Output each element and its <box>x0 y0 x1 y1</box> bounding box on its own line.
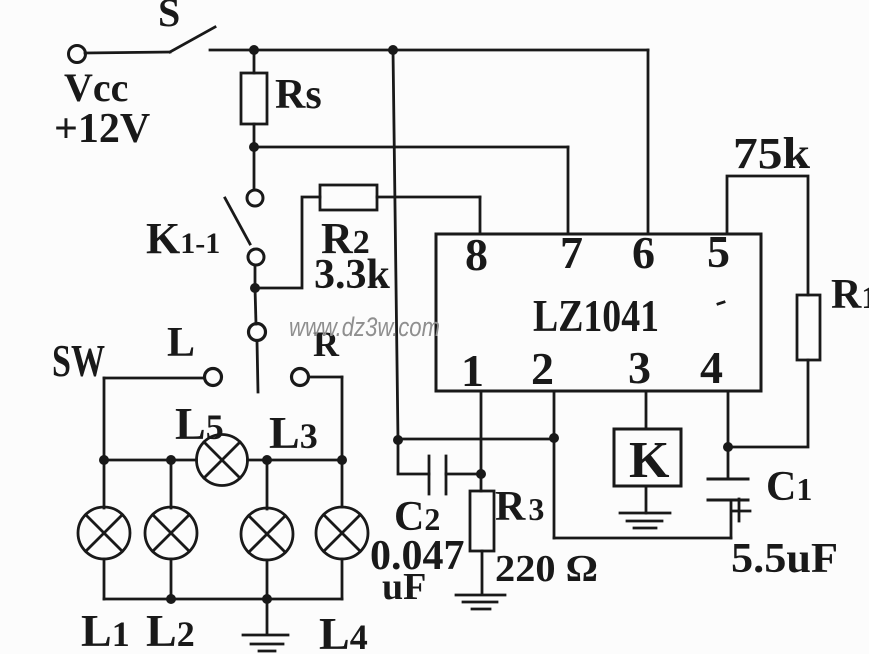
svg-text:uF: uF <box>382 566 426 608</box>
svg-text:+12V: +12V <box>54 106 150 152</box>
svg-text:3: 3 <box>628 342 651 393</box>
svg-text:K: K <box>629 432 670 489</box>
svg-text:6: 6 <box>632 227 655 278</box>
svg-text:L: L <box>167 320 195 366</box>
svg-text:SW: SW <box>52 335 105 386</box>
svg-text:5: 5 <box>707 226 730 277</box>
svg-text:75k: 75k <box>733 129 811 178</box>
svg-text:2: 2 <box>531 343 554 394</box>
svg-text:3.3k: 3.3k <box>314 252 391 298</box>
svg-text:S: S <box>158 0 180 35</box>
svg-text:220 Ω: 220 Ω <box>495 548 598 590</box>
svg-text:8: 8 <box>465 229 488 280</box>
svg-text:Vcc: Vcc <box>64 65 128 110</box>
svg-text:R3: R3 <box>495 484 544 530</box>
svg-text:Rs: Rs <box>275 72 322 118</box>
svg-text:C1: C1 <box>766 464 812 510</box>
svg-text:7: 7 <box>560 227 583 278</box>
svg-text:LZ1041: LZ1041 <box>533 290 659 341</box>
svg-text:4: 4 <box>700 342 723 393</box>
svg-text:www.dz3w.com: www.dz3w.com <box>289 312 440 342</box>
svg-text:5.5uF: 5.5uF <box>731 536 838 582</box>
svg-text:R1: R1 <box>831 272 869 318</box>
svg-text:1: 1 <box>461 345 484 396</box>
